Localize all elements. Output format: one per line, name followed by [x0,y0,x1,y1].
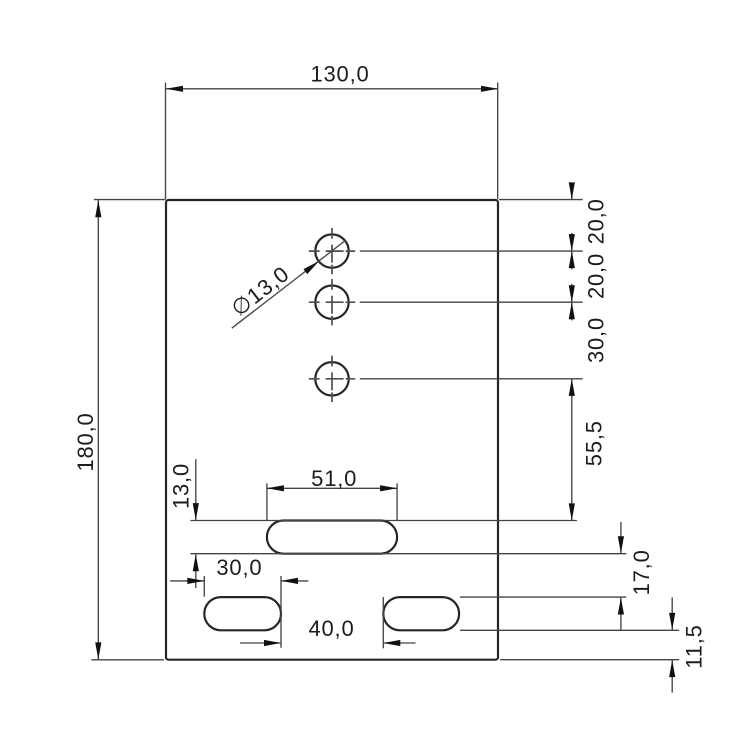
slot S2 (bottom left 30x13) [204,597,281,630]
svg-text:11,5: 11,5 [682,624,707,668]
dim line 180 [97,200,99,659]
hole H2 (middle, d13) [315,286,348,319]
ext line 51 right [396,483,398,520]
dim 11.5 upper segment [671,598,673,630]
arrow 11.5 bottom [669,660,675,677]
ext line 30 left [203,576,205,597]
ext line slot row bottom right [460,596,626,598]
arrow 40 left-side [264,640,281,646]
arrow 13 up [193,554,199,571]
arrow 55.5 top [569,379,575,396]
ext line 130 right [497,83,499,200]
ext line plate bottom right [500,659,679,661]
ext line S3 bottom [460,629,679,631]
arrow chain below H2 [569,302,575,319]
ext line slot S1 bottom row [190,553,626,555]
arrow 130 right [481,86,498,92]
arrow 17 top [618,536,624,553]
centerline H3 [309,356,355,402]
leader line hole H3 row [360,378,583,380]
dim 13 upper segment [195,459,197,520]
ext line 40 right [382,597,384,648]
dim line 130 [166,88,498,90]
arrowheads [95,86,675,677]
svg-text:17,0: 17,0 [629,549,654,595]
slot S3 (bottom right 30x13) [383,597,459,630]
svg-text:20,0: 20,0 [583,253,608,299]
ext line plate top right [499,199,583,201]
svg-text:55,5: 55,5 [582,420,607,466]
svg-text:130,0: 130,0 [310,62,369,87]
arrow 30 right-side [281,578,298,584]
plate outline [166,200,498,660]
arrow chain above H1 [569,234,575,251]
arrow 180 top [95,200,101,217]
dim 40 left tail [240,642,281,644]
arrow chain at plate top [569,182,575,199]
leader line hole H1 row [360,250,583,252]
arrow 130 left [166,86,183,92]
arrow 180 bottom [95,642,101,659]
arrow 13 down [193,503,199,520]
svg-text:30,0: 30,0 [216,555,262,580]
arrow 55.5 bottom [569,503,575,520]
ext line 130 left [165,83,167,200]
dim chain right: segment below H1 row [571,251,573,269]
svg-text:51,0: 51,0 [311,466,357,491]
centerline H1 [309,228,355,274]
svg-text:13,0: 13,0 [169,463,194,509]
dim 30 left tail [170,580,204,582]
arrow 51 left [267,485,284,491]
arrow chain below H1 [569,251,575,268]
dimension texts [73,62,706,669]
ext line 180 bottom [92,659,165,661]
svg-text:30,0: 30,0 [583,317,608,363]
dim 40 right tail [383,642,415,644]
arrow 40 right-side [383,640,400,646]
dim 17 upper segment [620,522,622,553]
dim chain right: segment above H1 row [571,233,573,251]
dim line 51 [267,487,397,489]
hole H1 (top, d13) [315,234,348,267]
dim 13 lower segment [195,554,197,588]
arrow 11.5 top [669,613,675,630]
dim chain right: segment below H2 row [571,302,573,320]
arrow chain above H2 [569,285,575,302]
svg-text:40,0: 40,0 [308,616,354,641]
arrow 51 right [380,485,397,491]
ext line 30/40 shared [280,576,282,648]
dim 17 lower segment [620,598,622,631]
svg-text:180,0: 180,0 [73,412,98,471]
leader line hole H2 row [360,301,583,303]
arrow leader d13 [303,261,318,274]
leader line d13 [232,240,346,328]
dim chain right: segment above plate top [571,183,573,199]
ext line 180 top [94,199,166,201]
dim line 55.5 [571,379,573,521]
hole H3 (lower, d13) [315,362,348,395]
centerline H2 [309,279,355,325]
svg-text:20,0: 20,0 [583,198,608,244]
arrow 17 bottom [618,598,624,615]
dim 11.5 lower segment [671,660,673,693]
ext line 51 left [266,483,268,520]
dim chain right: segment above H2 row [571,284,573,302]
dim 30 right tail [281,580,308,582]
thin extension and dimension lines [92,83,680,693]
ext line slot S1 top row [190,520,577,522]
arrow 30 left-side [187,578,204,584]
slot S1 (center 51x13) [267,521,397,554]
